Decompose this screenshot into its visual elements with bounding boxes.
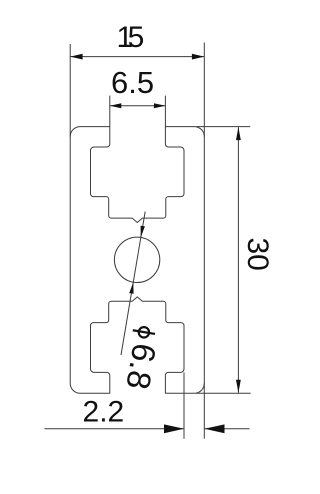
dim 30 arrow bottom: [236, 380, 241, 393]
svg-text:6.5: 6.5: [111, 65, 154, 100]
center hole circle: [114, 237, 159, 282]
svg-text:2.2: 2.2: [83, 395, 125, 428]
dim 2.2 arrow left: [164, 424, 184, 433]
profile outline: [70, 127, 204, 394]
dim 2.2 dimension line right part: [204, 428, 249, 430]
dim 15 arrow right: [192, 54, 204, 60]
dim 6.5 arrow left: [110, 103, 122, 108]
dim 15 arrow left: [70, 54, 82, 60]
dim 15 extension line right: [203, 43, 205, 137]
hole leader arrow at circle bottom: [129, 282, 133, 294]
dim 6.5 extension line right: [164, 96, 166, 127]
svg-text:6.8: 6.8: [119, 341, 163, 392]
dim 2.2 extension line left: [183, 372, 185, 438]
dim 2.2 dimension line left part: [44, 428, 184, 430]
dim 2.2 arrow right: [205, 424, 225, 433]
svg-text:30: 30: [241, 238, 274, 271]
dim 2.2 extension line right: [203, 383, 205, 438]
dim 30 extension line bottom: [196, 392, 251, 394]
dim 6.5 extension line left: [109, 96, 111, 127]
dim 30 extension line top: [196, 126, 250, 128]
dim 6.5 dimension line: [110, 105, 166, 107]
dim 15 dimension line: [70, 56, 204, 58]
hole leader line: [121, 212, 145, 356]
dim 30 dimension line: [237, 127, 239, 393]
dim 6.5 arrow right: [154, 103, 166, 108]
hole dia phi symbol: [133, 327, 155, 337]
hole leader arrow at circle top: [141, 226, 145, 238]
dim 30 arrow top: [236, 127, 241, 140]
dim 15 extension line left: [69, 44, 71, 137]
